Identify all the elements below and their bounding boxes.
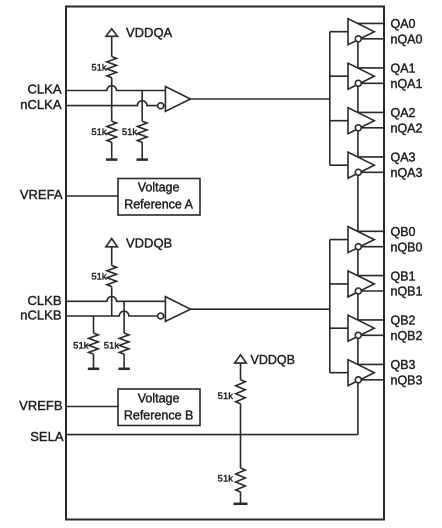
svg-text:VREFA: VREFA <box>20 187 63 202</box>
ground (R6) <box>118 368 129 371</box>
output buffer QA3 <box>348 152 374 178</box>
wire output nQB0 <box>361 246 383 248</box>
power symbol VDDQB (bank B) <box>111 247 113 266</box>
output buffer QA0 <box>348 19 374 45</box>
inverted output bubble nQA1 <box>355 80 361 86</box>
block: Voltage Reference B <box>118 389 200 426</box>
output buffer QB1 <box>348 271 374 297</box>
svg-text:Reference A: Reference A <box>124 197 193 211</box>
wire VREFB input <box>65 406 118 408</box>
wire output QA1 <box>358 67 384 69</box>
svg-text:nQB0: nQB0 <box>391 240 423 254</box>
inverted output bubble nQB1 <box>355 288 361 294</box>
wire output QB0 <box>358 230 384 232</box>
svg-text:nQB3: nQB3 <box>391 374 423 388</box>
wire output QB3 <box>358 363 384 365</box>
resistor R3 51k (CLKA pull-down) <box>137 121 147 142</box>
output buffer QB0 <box>348 227 374 253</box>
svg-text:QB2: QB2 <box>391 314 416 328</box>
wire output nQA2 <box>361 127 383 129</box>
svg-text:51k: 51k <box>91 63 107 74</box>
wire output nQB1 <box>361 290 383 292</box>
wire output nQB3 <box>361 379 383 381</box>
svg-text:nQA0: nQA0 <box>391 33 423 47</box>
ground (R2) <box>106 158 117 161</box>
ground (R3) <box>137 158 148 161</box>
svg-text:51k: 51k <box>104 341 120 352</box>
wire amp B output to QB bus <box>191 308 330 310</box>
wire SELA input to bias divider and select bus <box>65 434 358 436</box>
svg-text:51k: 51k <box>91 272 107 283</box>
wire output QA3 <box>358 156 384 158</box>
wire CLKB tap down to R6 <box>123 301 125 333</box>
svg-text:Reference B: Reference B <box>124 408 193 422</box>
inverting input bubble (amp A) <box>158 103 164 109</box>
resistor R5 51k (nCLKB pull-down) <box>89 333 99 354</box>
wire CLKB input with hop over pull-up chain <box>65 297 165 302</box>
svg-text:nQA1: nQA1 <box>391 77 423 91</box>
inverted output bubble nQA2 <box>355 125 361 131</box>
wire output QB2 <box>358 319 384 321</box>
resistor R1 51k (nCLKA pull-up) <box>107 57 117 78</box>
svg-text:QB3: QB3 <box>391 358 416 372</box>
wire QA input bus <box>329 32 331 166</box>
output buffer QA2 <box>348 108 374 134</box>
svg-text:nCLKB: nCLKB <box>20 308 61 323</box>
svg-text:QB0: QB0 <box>391 225 416 239</box>
svg-text:QA1: QA1 <box>391 62 416 76</box>
wire R5 to ground <box>93 354 95 369</box>
wire output QB1 <box>358 275 384 277</box>
resistor R7 51k (SELA pull-up) <box>236 380 246 404</box>
svg-text:Voltage: Voltage <box>138 181 180 195</box>
wire nCLKA input with hop over R3 chain <box>65 101 158 106</box>
wire VREFA input <box>65 195 118 197</box>
inverted output bubble nQB2 <box>355 332 361 338</box>
wire R6 to ground <box>123 354 125 369</box>
output buffer QB2 <box>348 315 374 341</box>
op-amp U1 (input amp A) <box>165 87 190 112</box>
wire stub to buffer QA3 <box>330 164 348 166</box>
resistor R2 51k (nCLKA pull-down) <box>107 121 117 142</box>
block: Voltage Reference A <box>118 179 200 216</box>
svg-text:SELA: SELA <box>30 429 64 444</box>
wire R3 to ground <box>141 142 143 159</box>
wire CLKA input with hop over pull-up chain <box>65 86 165 91</box>
svg-text:VDDQA: VDDQA <box>126 25 173 40</box>
outer device box <box>66 7 384 520</box>
power symbol VDDQB (SELA bias divider) <box>240 363 242 380</box>
svg-text:51k: 51k <box>218 391 234 402</box>
wire output QA0 <box>358 22 384 24</box>
wire stub to buffer QB0 <box>330 239 348 241</box>
wire output nQA0 <box>361 38 383 40</box>
wire stub to buffer QA2 <box>330 120 348 122</box>
svg-text:QA3: QA3 <box>391 151 416 165</box>
wire R8 to ground <box>240 492 242 504</box>
svg-text:QB1: QB1 <box>391 269 416 283</box>
wire output nQB2 <box>361 334 383 336</box>
wire R7 to SELA node <box>240 404 242 468</box>
svg-text:nQB2: nQB2 <box>391 329 423 343</box>
svg-text:51k: 51k <box>218 474 234 485</box>
svg-text:QA2: QA2 <box>391 106 416 120</box>
wire stub to buffer QB1 <box>330 283 348 285</box>
svg-text:CLKA: CLKA <box>28 82 62 97</box>
wire output nQA3 <box>361 171 383 173</box>
inverted output bubble nQB3 <box>355 377 361 383</box>
wire stub to buffer QA0 <box>330 31 348 33</box>
power symbol VDDQA <box>111 36 113 56</box>
resistor R4 51k (pull-up) <box>107 266 117 287</box>
resistor R6 51k (CLKB pull-down) <box>119 333 129 354</box>
wire CLKA tap down to R3 <box>141 91 143 122</box>
svg-text:VDDQB: VDDQB <box>126 235 172 250</box>
wire QB input bus <box>329 240 331 373</box>
ground (R5) <box>88 368 99 371</box>
svg-text:51k: 51k <box>122 127 138 138</box>
svg-text:Voltage: Voltage <box>138 392 180 406</box>
wire R4 bottom to nCLKB junction <box>111 287 113 317</box>
wire stub to buffer QB2 <box>330 327 348 329</box>
wire R1 bottom through nCLKA junction to R2 <box>111 78 113 122</box>
inverted output bubble nQA0 <box>355 36 361 42</box>
svg-text:CLKB: CLKB <box>28 293 62 308</box>
svg-text:nQA3: nQA3 <box>391 166 423 180</box>
svg-text:VREFB: VREFB <box>19 398 62 413</box>
output buffer QB3 <box>348 360 374 386</box>
svg-text:51k: 51k <box>73 341 89 352</box>
wire stub to buffer QB3 <box>330 372 348 374</box>
svg-text:nQB1: nQB1 <box>391 285 423 299</box>
wire amp A output to QA bus <box>191 98 330 100</box>
wire output nQA1 <box>361 82 383 84</box>
inverting input bubble (amp B) <box>158 313 164 319</box>
svg-text:VDDQB: VDDQB <box>251 353 295 367</box>
op-amp U2 (input amp B) <box>165 297 190 322</box>
resistor R8 51k (SELA pull-down) <box>236 468 246 492</box>
output buffer QA1 <box>348 63 374 89</box>
svg-text:51k: 51k <box>91 127 107 138</box>
inverted output bubble nQA3 <box>355 169 361 175</box>
svg-text:nQA2: nQA2 <box>391 122 423 136</box>
svg-text:QA0: QA0 <box>391 17 416 31</box>
wire nCLKB tap down to R5 <box>93 316 95 333</box>
ground (R8) <box>234 503 248 506</box>
wire R2 to ground <box>111 142 113 159</box>
wire stub to buffer QA1 <box>330 75 348 77</box>
wire select bus vertical through output stages <box>357 39 359 435</box>
wire output QA2 <box>358 111 384 113</box>
wire nCLKB input with hop over R6 chain <box>65 311 158 316</box>
inverted output bubble nQB0 <box>355 244 361 250</box>
svg-text:nCLKA: nCLKA <box>20 97 62 112</box>
